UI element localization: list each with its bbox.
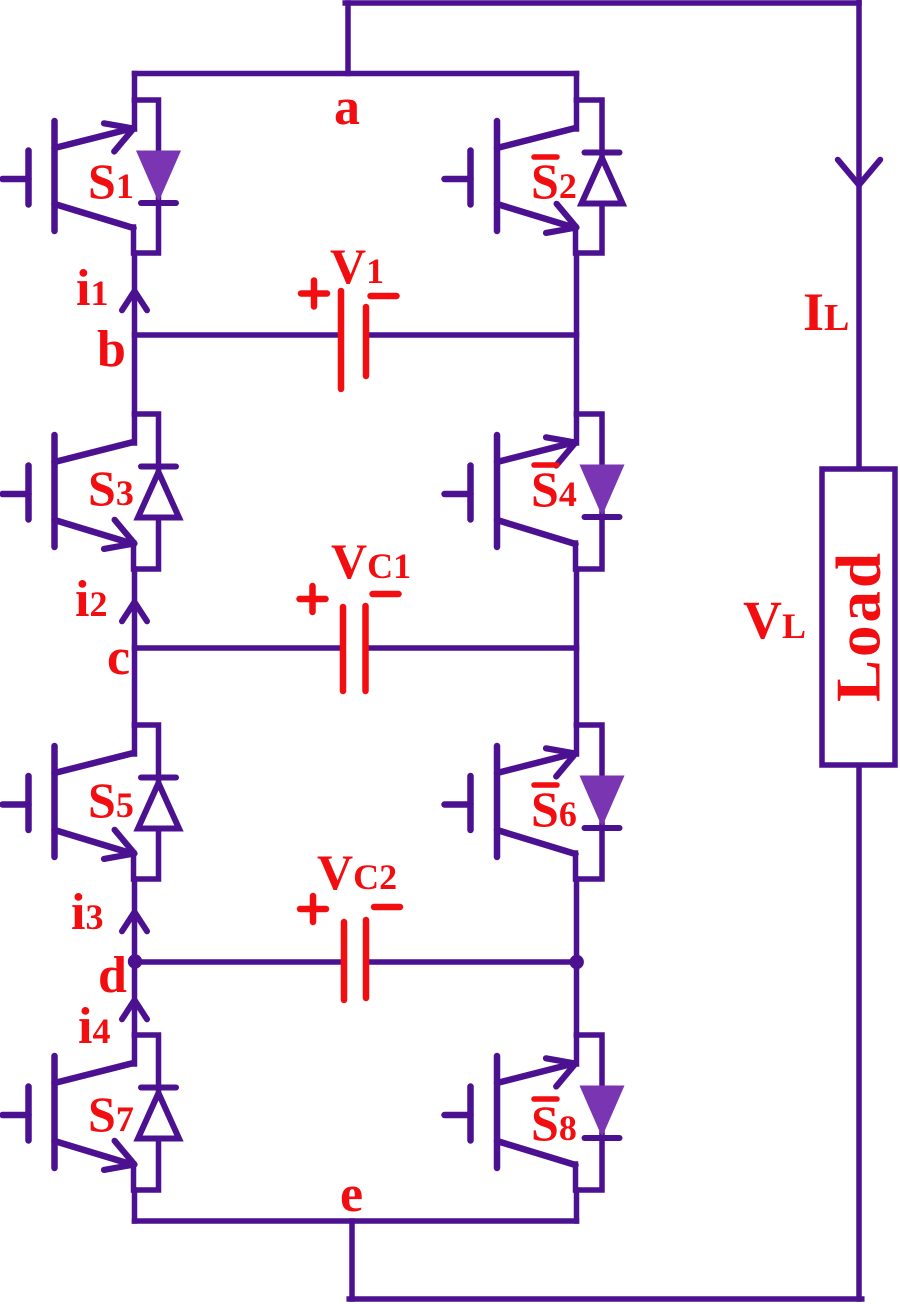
svg-text:d: d bbox=[98, 947, 127, 1004]
label S5 bbox=[88, 772, 134, 828]
wire right stem a to S2 bbox=[574, 74, 580, 101]
label S1 bbox=[88, 153, 134, 209]
svg-text:e: e bbox=[340, 1166, 363, 1223]
label i3 bbox=[71, 884, 103, 941]
anti-parallel diode branch wire of S3 bbox=[135, 414, 159, 569]
label S7 bbox=[88, 1086, 134, 1142]
wire top rail bbox=[345, 0, 859, 6]
wire bottom-left connector to node e rail bbox=[349, 1221, 355, 1299]
IGBT switch S4 transistor bbox=[445, 414, 577, 569]
anti-parallel diode branch wire of S4 bbox=[577, 414, 603, 569]
wire bottom rail bbox=[349, 1296, 862, 1302]
wire node c rail right segment bbox=[369, 645, 577, 651]
label i2 bbox=[75, 571, 107, 628]
IGBT switch S5 transistor bbox=[3, 725, 135, 879]
diode symbol of S4 bbox=[581, 466, 623, 518]
diode symbol of S8 bbox=[581, 1087, 623, 1139]
capacitor VC1 plus sign bbox=[300, 586, 326, 612]
anti-parallel diode branch wire of S5 bbox=[135, 725, 159, 879]
wire node d rail left segment bbox=[135, 959, 341, 965]
load text bbox=[824, 550, 894, 702]
junction dot node d left bbox=[128, 954, 142, 968]
capacitor VC2 minus sign bbox=[374, 904, 400, 911]
svg-text:b: b bbox=[97, 321, 126, 378]
label IL bbox=[803, 282, 849, 342]
svg-text:Load: Load bbox=[824, 550, 894, 702]
wire node c rail left segment bbox=[135, 645, 341, 651]
capacitor VC2 plus sign bbox=[300, 896, 326, 922]
IGBT switch S1 transistor bbox=[3, 100, 135, 253]
anti-parallel diode branch wire of S1 bbox=[135, 100, 159, 253]
IGBT switch S2 transistor bbox=[445, 100, 577, 253]
current arrow i1 bbox=[122, 291, 147, 310]
diode symbol of S7 bbox=[138, 1088, 179, 1139]
svg-text:c: c bbox=[107, 629, 130, 686]
svg-text:a: a bbox=[334, 79, 360, 136]
node a label bbox=[334, 79, 360, 136]
node d label bbox=[98, 947, 127, 1004]
node b label bbox=[97, 321, 126, 378]
diode symbol of S3 bbox=[138, 467, 179, 518]
label i4 bbox=[78, 998, 110, 1055]
IGBT switch S6 transistor bbox=[445, 725, 577, 879]
node c label bbox=[107, 629, 130, 686]
label S4 bbox=[531, 461, 577, 517]
capacitor V1 plates bbox=[341, 291, 366, 389]
node e label bbox=[340, 1166, 363, 1223]
load resistor box bbox=[822, 469, 895, 765]
wire left stem a to S1 bbox=[132, 74, 138, 101]
IGBT switch S3 transistor bbox=[3, 414, 135, 569]
label S3 bbox=[88, 460, 134, 516]
wire left stem S5 to S7 (through node d) bbox=[132, 879, 138, 1035]
label VC2 bbox=[317, 844, 397, 900]
current arrow IL bbox=[838, 160, 880, 185]
wire node e rail bbox=[135, 1218, 577, 1224]
current arrow i2 bbox=[122, 602, 147, 621]
anti-parallel diode branch wire of S7 bbox=[135, 1035, 159, 1190]
IGBT switch S8 transistor bbox=[445, 1035, 577, 1190]
current arrow i4 bbox=[122, 1000, 147, 1019]
wire left stem S1 to S3 (through node b) bbox=[132, 253, 138, 414]
capacitor VC1 plates bbox=[343, 606, 366, 691]
wire node a rail bbox=[135, 71, 577, 77]
diode symbol of S5 bbox=[138, 778, 179, 829]
wire right stem S2 to S4 (through node b) bbox=[574, 253, 580, 414]
capacitor VC2 plates bbox=[344, 920, 366, 1000]
diode symbol of S2 bbox=[582, 153, 623, 204]
label S8 bbox=[531, 1095, 577, 1151]
wire right stem S8 to node e bbox=[574, 1190, 580, 1221]
wire top-left connector from node a rail bbox=[345, 3, 351, 74]
IGBT switch S7 transistor bbox=[3, 1035, 135, 1190]
wire node d rail right segment bbox=[369, 959, 577, 965]
capacitor V1 plus sign bbox=[301, 281, 327, 307]
wire right side upper (to load) bbox=[856, 0, 862, 469]
current arrow i3 bbox=[122, 912, 147, 931]
wire right stem S4 to S6 (through node c) bbox=[574, 569, 580, 725]
label i1 bbox=[76, 260, 108, 317]
anti-parallel diode branch wire of S8 bbox=[577, 1035, 603, 1190]
diode symbol of S6 bbox=[581, 777, 623, 829]
label V1 bbox=[330, 238, 384, 294]
wire left stem S3 to S5 (through node c) bbox=[132, 569, 138, 725]
wire right stem S6 to S8 (through node d) bbox=[574, 879, 580, 1035]
junction dot node d right bbox=[570, 955, 584, 969]
wire left stem S7 to node e bbox=[132, 1190, 138, 1221]
capacitor V1 minus sign bbox=[371, 293, 397, 300]
anti-parallel diode branch wire of S6 bbox=[577, 725, 603, 879]
wire node b rail left segment bbox=[135, 332, 339, 338]
wire node b rail right segment bbox=[369, 332, 577, 338]
diode symbol of S1 bbox=[138, 152, 180, 204]
anti-parallel diode branch wire of S2 bbox=[577, 100, 603, 253]
label S6 bbox=[531, 781, 577, 837]
wire right side lower (from load) bbox=[856, 765, 862, 1299]
label VC1 bbox=[331, 533, 411, 589]
label S2 bbox=[531, 153, 577, 209]
label VL bbox=[743, 590, 806, 650]
capacitor VC1 minus sign bbox=[373, 591, 399, 598]
